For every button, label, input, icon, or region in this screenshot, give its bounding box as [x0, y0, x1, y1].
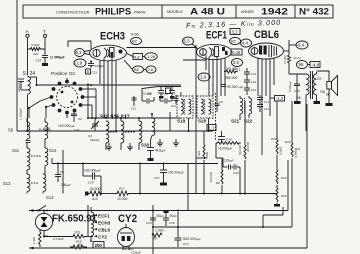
- svg-text:S20: S20: [198, 119, 207, 124]
- svg-text:1.400: 1.400: [32, 237, 36, 244]
- svg-text:A22: A22: [32, 52, 39, 56]
- svg-text:44,5µµF: 44,5µµF: [155, 149, 166, 153]
- svg-text:FK.650.91: FK.650.91: [52, 214, 97, 225]
- label 4,8 -1,26: [126, 48, 196, 61]
- circled 3,5: [232, 59, 243, 72]
- svg-text:S19: S19: [177, 119, 186, 124]
- svg-text:100.000µµF: 100.000µµF: [168, 171, 184, 175]
- resistor R16: [274, 188, 287, 207]
- capacitor C17 100.000uuF: [154, 164, 184, 186]
- svg-text:B2: B2: [231, 39, 237, 44]
- svg-text:-4,8: -4,8: [312, 62, 320, 67]
- capacitor cluster C5 C7: [142, 87, 181, 99]
- svg-text:C13: C13: [264, 100, 269, 104]
- svg-text:C27: C27: [183, 242, 189, 246]
- svg-text:C14: C14: [264, 107, 269, 111]
- left frame wire: [16, 0, 18, 131]
- capacitor 44,5uuF: [147, 140, 166, 161]
- svg-text:PARIS: PARIS: [134, 10, 146, 15]
- junction dots coil row: [87, 113, 153, 119]
- svg-text:CBL6: CBL6: [98, 228, 110, 233]
- svg-text:500.000µµF: 500.000µµF: [183, 237, 201, 241]
- svg-text:800µµF: 800µµF: [55, 55, 65, 59]
- svg-text:10.000: 10.000: [143, 92, 153, 96]
- svg-text:300.000: 300.000: [246, 141, 250, 152]
- boxed 3,2: [230, 29, 240, 35]
- svg-text:C9: C9: [219, 100, 223, 104]
- wire x188 down: [187, 164, 189, 212]
- svg-text:-1,9: -1,9: [75, 61, 83, 66]
- svg-text:S7: S7: [317, 76, 323, 81]
- bottom nested wires: [153, 104, 307, 248]
- svg-text:17Ω: 17Ω: [74, 231, 81, 235]
- capacitor C28 100.000uuF: [83, 169, 101, 194]
- svg-text:C12: C12: [171, 104, 177, 108]
- svg-text:24: 24: [30, 71, 36, 77]
- circled -6,4: [289, 41, 308, 49]
- svg-text:240µµF: 240µµF: [95, 64, 105, 68]
- mid horizontal wire y163: [52, 158, 218, 194]
- svg-text:-1,26: -1,26: [146, 54, 156, 59]
- svg-text:0,66: 0,66: [131, 32, 140, 37]
- chassis grounds under coil row: [106, 139, 179, 150]
- svg-text:100.000µµF: 100.000µµF: [58, 124, 75, 128]
- capacitor 90.000uuF: [221, 85, 243, 90]
- svg-text:R6: R6: [216, 181, 220, 185]
- svg-text:440µµF: 440µµF: [90, 138, 100, 142]
- svg-text:16.000µµF: 16.000µµF: [218, 147, 233, 151]
- svg-text:R17: R17: [119, 187, 125, 191]
- capacitor C26 5.000uuF: [288, 74, 300, 101]
- svg-text:R11: R11: [295, 147, 301, 151]
- capacitor stack right of S22: [257, 95, 269, 112]
- svg-text:ECF1: ECF1: [206, 30, 227, 42]
- capacitor C31 240uuF: [86, 61, 105, 75]
- title block frame: [23, 5, 333, 18]
- svg-text:ECH3: ECH3: [98, 221, 111, 226]
- svg-text:50µF: 50µF: [170, 214, 178, 218]
- svg-text:2,6: 2,6: [148, 67, 154, 72]
- svg-text:S18: S18: [141, 143, 149, 148]
- svg-text:MODÈLE: MODÈLE: [167, 9, 184, 14]
- loudspeaker: [317, 71, 338, 103]
- svg-text:4,8: 4,8: [134, 54, 140, 59]
- svg-text:N° 432: N° 432: [299, 7, 329, 17]
- svg-text:CONSTRUCTEUR: CONSTRUCTEUR: [56, 9, 90, 14]
- svg-text:100.000µµF: 100.000µµF: [84, 169, 101, 173]
- dashed gang line: [215, 93, 217, 140]
- svg-text:S8: S8: [326, 93, 330, 97]
- capacitor C8 186uuF: [55, 150, 71, 194]
- circled B2 (ECF1): [230, 37, 241, 44]
- CBL6 tube: [249, 40, 290, 155]
- svg-text:200: 200: [95, 243, 103, 248]
- coil S10: [43, 118, 51, 139]
- svg-text:C11: C11: [131, 107, 136, 111]
- earth terminal T: [43, 29, 47, 55]
- svg-text:C8: C8: [60, 170, 64, 174]
- variable capacitor C4: [88, 118, 100, 142]
- boxed 1,1: [207, 125, 216, 131]
- wire row above coils: [88, 89, 180, 118]
- svg-text:R16: R16: [281, 194, 287, 198]
- svg-text:C24µµF: C24µµF: [131, 250, 141, 254]
- svg-text:C22: C22: [251, 80, 257, 84]
- svg-text:CY2: CY2: [98, 235, 107, 240]
- boxed -1,2: [270, 96, 285, 102]
- circled 95 boxed 4,8: [297, 61, 321, 69]
- svg-text:C26: C26: [294, 89, 300, 93]
- svg-text:R05: R05: [197, 150, 201, 156]
- svg-text:C12: C12: [251, 88, 257, 92]
- vertical wire right of FK label: [87, 205, 89, 237]
- capacitor C27 500.000uuF: [175, 212, 202, 247]
- svg-text:C17: C17: [154, 176, 160, 180]
- svg-text:0,5MΩ: 0,5MΩ: [279, 146, 283, 155]
- capacitor C9: [215, 96, 224, 112]
- svg-text:4,4: 4,4: [242, 41, 249, 46]
- svg-text:0,5R22: 0,5R22: [53, 237, 64, 241]
- label 100.000 C24: [122, 247, 141, 254]
- circled 6,3 (ECF1): [183, 37, 199, 49]
- circled -1,9 (second): [198, 73, 210, 81]
- capacitor C18 120uuF: [223, 158, 240, 194]
- svg-text:R5: R5: [153, 237, 157, 241]
- ECF1 tube: [183, 44, 232, 193]
- svg-text:120µµF: 120µµF: [224, 159, 234, 163]
- coil S18: [141, 114, 155, 148]
- resistor R13: [276, 170, 287, 188]
- wires bottom long buses: [29, 160, 307, 249]
- resistor R10 6,5M: [285, 101, 301, 227]
- coil S12: [31, 139, 57, 174]
- svg-text:-6,4: -6,4: [297, 43, 305, 48]
- svg-text:C21: C21: [251, 72, 257, 76]
- svg-text:≈0,7µ: ≈0,7µ: [293, 56, 301, 60]
- svg-text:B2: B2: [132, 39, 138, 44]
- resistor 380.000: [224, 67, 238, 81]
- svg-text:C2: C2: [78, 117, 82, 121]
- svg-text:-1,9: -1,9: [199, 75, 207, 80]
- CY2 tube: [118, 224, 135, 250]
- ground pads right: [294, 101, 333, 106]
- svg-text:CBL6: CBL6: [254, 29, 279, 41]
- svg-text:C23: C23: [146, 221, 152, 225]
- loudspeaker field FK.650.91: [35, 211, 52, 237]
- svg-text:1942: 1942: [261, 7, 288, 17]
- svg-text:1.000: 1.000: [155, 229, 164, 233]
- resistor R15: [197, 131, 209, 194]
- svg-text:3,2: 3,2: [232, 29, 239, 34]
- svg-text:CY2: CY2: [118, 213, 137, 225]
- resistor R6 100.000: [209, 143, 223, 194]
- resistor 1.400 R9: [32, 229, 48, 247]
- svg-text:500.000: 500.000: [238, 144, 242, 155]
- coil S9: [8, 118, 30, 139]
- main wire bus under tubes: [17, 130, 213, 132]
- capacitor C2: [71, 112, 82, 122]
- svg-text:100µµF: 100µµF: [17, 82, 21, 92]
- svg-text:R12: R12: [271, 137, 277, 141]
- resistor R12 0,5M: [271, 101, 283, 170]
- output transformer S6 S7 S8: [289, 65, 326, 131]
- capacitor column C21 C22: [244, 68, 257, 95]
- svg-text:6,3: 6,3: [184, 39, 191, 44]
- svg-text:ECH3: ECH3: [100, 31, 125, 43]
- label B2 2,6: [124, 60, 156, 73]
- svg-text:186µµF: 186µµF: [61, 183, 71, 187]
- svg-text:380 000: 380 000: [225, 76, 237, 80]
- svg-text:S13: S13: [3, 181, 11, 186]
- capacitor C3: [131, 92, 154, 111]
- resistor R19 17ohm: [44, 231, 93, 244]
- svg-text:S21: S21: [231, 119, 240, 124]
- svg-text:R18: R18: [92, 197, 98, 201]
- capacitor C16: [218, 131, 232, 143]
- coil S14: [31, 174, 54, 200]
- svg-text:B2: B2: [134, 67, 140, 72]
- coil S11: [12, 139, 31, 174]
- resistor R18 30.000: [89, 187, 103, 201]
- svg-text:1.500µµF: 1.500µµF: [19, 108, 23, 120]
- horizontal resistor 16.000: [216, 142, 241, 151]
- svg-text:R13: R13: [281, 176, 287, 180]
- resistor A22 Tr.600: [28, 43, 46, 70]
- svg-text:300.000: 300.000: [226, 67, 237, 71]
- svg-text:17.000: 17.000: [283, 55, 287, 64]
- label S24: [23, 70, 36, 78]
- resistor R17 10.000: [115, 187, 130, 201]
- svg-text:1,1: 1,1: [209, 125, 215, 130]
- resistor R22 0,5: [53, 237, 64, 241]
- chassis pad left of R18: [85, 192, 88, 196]
- svg-text:6,3: 6,3: [76, 50, 82, 55]
- svg-text:0,46: 0,46: [232, 50, 241, 55]
- resistor 17.000 anode: [283, 55, 301, 65]
- label 100.000uuF C32: [58, 124, 80, 132]
- svg-text:95: 95: [299, 62, 304, 67]
- boxed 0,46: [231, 49, 242, 55]
- resistor R21 50: [70, 243, 87, 249]
- antenna terminal A: [26, 29, 30, 48]
- heater chain resistor: [91, 207, 111, 248]
- circled -1,9: [74, 59, 86, 67]
- svg-text:ECF1: ECF1: [98, 214, 110, 219]
- IF transformer S19: [177, 92, 193, 131]
- IF transformer S21 S22: [231, 96, 253, 124]
- svg-text:Position OC: Position OC: [51, 71, 76, 76]
- svg-text:50µF: 50µF: [157, 214, 165, 218]
- capacitor C29 15.000uuF: [36, 56, 65, 67]
- coil S24: [17, 76, 37, 131]
- svg-text:10.000: 10.000: [117, 197, 127, 201]
- svg-text:Tr.600: Tr.600: [31, 43, 40, 47]
- oscillator coils S15 S16 S17: [100, 115, 142, 151]
- rotary wave-band switch: [28, 78, 181, 118]
- svg-text:ANNÉE: ANNÉE: [241, 9, 255, 14]
- svg-text:-1,2: -1,2: [276, 96, 284, 101]
- svg-text:A 48 U: A 48 U: [190, 7, 225, 17]
- svg-text:S12: S12: [49, 148, 57, 153]
- svg-text:C29: C29: [36, 59, 42, 63]
- svg-text:1MΩ: 1MΩ: [205, 151, 209, 158]
- resistor 500.000: [238, 101, 250, 194]
- electrolytic C20 50uF: [163, 210, 177, 226]
- IF transformer S20: [197, 96, 213, 131]
- svg-text:3,5: 3,5: [233, 60, 240, 65]
- svg-text:90.000 µµF: 90.000 µµF: [227, 85, 243, 89]
- svg-text:S14: S14: [46, 195, 54, 200]
- svg-text:C16: C16: [226, 138, 232, 142]
- coil S13: [3, 174, 30, 194]
- svg-text:PHILIPS: PHILIPS: [95, 7, 131, 18]
- resistor 1.000: [152, 229, 164, 241]
- mid horizontal buses: [88, 85, 170, 131]
- svg-text:C28: C28: [88, 181, 94, 185]
- circled 4,4: [241, 39, 252, 47]
- main HT bus y193: [87, 193, 90, 195]
- svg-text:C20: C20: [169, 221, 175, 225]
- svg-text:C31: C31: [92, 71, 98, 75]
- svg-text:R10: R10: [285, 140, 291, 144]
- svg-text:C19: C19: [233, 171, 239, 175]
- ECH3 tube: [68, 41, 127, 131]
- capacitor C10: [143, 92, 179, 109]
- mains switch: [37, 206, 48, 212]
- svg-text:S11: S11: [12, 148, 20, 153]
- svg-text:100.000: 100.000: [209, 171, 213, 182]
- circled 6,3: [55, 49, 90, 60]
- svg-text:S9: S9: [8, 128, 14, 133]
- label 0,66 B2: [131, 32, 142, 45]
- electrolytic C23 50uF: [146, 205, 164, 254]
